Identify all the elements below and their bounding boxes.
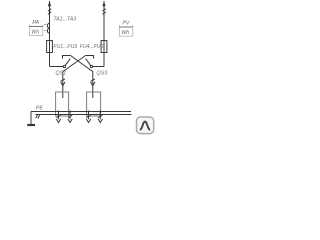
wire: right incoming feeder vertical bbox=[103, 1, 105, 67]
fuse FU4...FU6 (right) bbox=[101, 41, 107, 53]
disconnector QS1 hinge circle bbox=[63, 65, 65, 67]
wire: feeder tail inside left cabinet bbox=[62, 92, 64, 98]
wire: dashed link CT to meters bbox=[44, 25, 47, 31]
outgoing feeder arrow 1 bbox=[56, 111, 60, 123]
instrument block PA/Wh (left) bbox=[29, 26, 42, 35]
bus: PE line (top) bbox=[31, 111, 131, 113]
disconnector QS3 hinge circle bbox=[90, 65, 92, 67]
disconnector QS1 blade (open) bbox=[65, 59, 70, 66]
instrument block PV/Wh (right) bbox=[119, 27, 132, 36]
watermark badge (bell curve logo) bbox=[137, 117, 154, 134]
wire: feeder tail inside right cabinet bbox=[92, 92, 94, 98]
svg-text:FU1...FU3: FU1...FU3 bbox=[54, 44, 78, 50]
wire: left corner into crossover bbox=[50, 66, 64, 68]
svg-text:Wh: Wh bbox=[31, 30, 39, 36]
arrow: left feeder up-arrow head bbox=[48, 1, 51, 7]
fixed contact right (hooked bar) bbox=[86, 56, 94, 59]
svg-text:TA1...TA3: TA1...TA3 bbox=[54, 17, 77, 23]
arrow: right feeder up-arrow head bbox=[102, 1, 105, 7]
outgoing feeder arrow 3 bbox=[86, 111, 90, 123]
outgoing feeder arrow 2 bbox=[68, 111, 72, 123]
fixed contact left (hooked bar) bbox=[63, 56, 71, 59]
tick marks on left feeder (line break slashes) bbox=[48, 9, 51, 12]
svg-text:QS3: QS3 bbox=[97, 71, 108, 77]
cabinet box right bbox=[87, 92, 101, 116]
wire: right corner into crossover bbox=[93, 66, 104, 68]
svg-text:FU4...FU6: FU4...FU6 bbox=[80, 44, 104, 50]
outgoing feeder arrow 4 bbox=[98, 111, 102, 123]
hatch slashes on N bus bbox=[36, 114, 38, 118]
svg-text:Wh: Wh bbox=[121, 30, 129, 36]
current transformer TA1...TA3 arcs bbox=[47, 23, 49, 28]
svg-text:QS1: QS1 bbox=[56, 71, 67, 77]
arrow into right cabinet bbox=[91, 79, 95, 81]
wire: left incoming feeder vertical bbox=[49, 1, 51, 67]
wire: ground drop at left bbox=[30, 112, 32, 125]
bus: N line (bottom) bbox=[36, 114, 132, 116]
wire: diagonal right-top to left-bottom bbox=[63, 56, 86, 92]
svg-text:PE: PE bbox=[36, 106, 43, 112]
svg-text:PV: PV bbox=[122, 21, 129, 27]
arrow into left cabinet bbox=[61, 79, 65, 81]
ground electrode bar bbox=[27, 124, 35, 126]
cabinet box left bbox=[56, 92, 69, 116]
disconnector QS3 blade (open) bbox=[86, 59, 91, 66]
wire: diagonal left-top to right-bottom bbox=[71, 56, 93, 92]
svg-text:PA: PA bbox=[32, 20, 39, 26]
fuse FU1...FU3 (left) bbox=[47, 41, 53, 53]
tick marks on right feeder bbox=[103, 9, 106, 12]
